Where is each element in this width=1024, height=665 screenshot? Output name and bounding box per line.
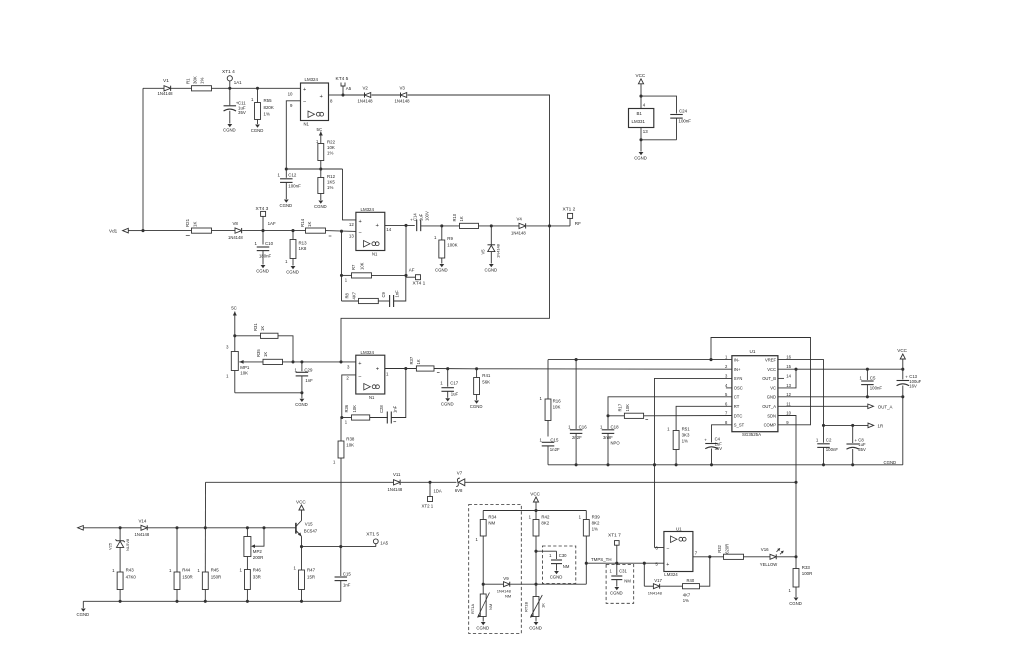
wire R40 up to output — [700, 557, 710, 586]
svg-text:XT1 5: XT1 5 — [366, 531, 379, 537]
svg-text:1%: 1% — [682, 438, 688, 443]
svg-text:12: 12 — [349, 222, 354, 227]
wire C24 bottom to B1 bottom — [641, 139, 677, 141]
svg-text:NM: NM — [488, 604, 493, 610]
node V9 R42 junction — [534, 583, 537, 586]
svg-text:XT2 1: XT2 1 — [422, 504, 434, 509]
svg-text:KT4 5: KT4 5 — [336, 76, 349, 82]
svg-text:CGND: CGND — [435, 267, 448, 272]
node emitter junction — [300, 545, 303, 548]
svg-text:R13: R13 — [299, 241, 308, 246]
wire R8 to C9 — [378, 300, 389, 302]
svg-text:CGND: CGND — [223, 127, 236, 132]
node IN- C16 junction — [575, 358, 578, 361]
wire AF node up to output — [405, 225, 407, 275]
node R22 R12 junction — [319, 167, 322, 170]
power VCC V15 — [296, 499, 306, 510]
node GND C5 junction — [866, 395, 869, 398]
svg-text:C17: C17 — [450, 380, 459, 385]
wire main row to U1 IN+ pin 2 — [473, 368, 732, 370]
resistor R51 — [667, 426, 690, 464]
node rail SYN — [653, 463, 656, 466]
svg-text:1nF: 1nF — [395, 290, 400, 298]
svg-text:CGND: CGND — [529, 625, 542, 630]
tiny mark after R17 — [645, 419, 648, 421]
diode V14 — [135, 518, 150, 536]
node rail R51 — [675, 463, 678, 466]
svg-text:C12: C12 — [288, 173, 297, 178]
ground for R33 — [789, 598, 802, 606]
svg-text:15: 15 — [786, 364, 791, 369]
node R31 join — [291, 360, 294, 363]
svg-text:N1: N1 — [372, 252, 378, 257]
wire pot top to R31 — [235, 335, 261, 337]
net arrow 5C upper — [317, 127, 323, 137]
diode V2 — [358, 86, 374, 104]
node rail C2 — [822, 463, 825, 466]
svg-text:C15: C15 — [550, 437, 559, 442]
svg-text:R12: R12 — [327, 174, 336, 179]
node C15 junction — [339, 545, 342, 548]
zener V7 — [455, 471, 465, 494]
svg-text:NM: NM — [563, 564, 570, 569]
node Vd1 junction — [141, 229, 144, 232]
svg-text:13: 13 — [786, 383, 791, 388]
svg-text:2n2F: 2n2F — [572, 435, 582, 440]
wire DTC row — [608, 415, 732, 417]
tiny mark under C28 — [393, 421, 396, 423]
svg-text:V7: V7 — [457, 471, 463, 476]
svg-text:C2: C2 — [826, 438, 832, 443]
svg-text:35V: 35V — [715, 446, 723, 451]
op-amp N1B LM324 pins 12 13 14 — [349, 207, 392, 257]
power VCC B1 — [636, 73, 646, 109]
svg-text:CGND: CGND — [476, 625, 489, 630]
node rail C16 — [575, 463, 578, 466]
svg-text:R42: R42 — [541, 514, 550, 519]
svg-text:R1: R1 — [186, 78, 191, 84]
svg-text:VCC: VCC — [530, 491, 540, 496]
svg-text:CT: CT — [734, 395, 740, 400]
resistor R42 — [529, 514, 550, 584]
wire R31 down to wiper row — [278, 336, 293, 362]
svg-text:1%: 1% — [264, 112, 270, 117]
svg-text:V14: V14 — [139, 518, 147, 523]
node C29 junction — [300, 360, 303, 363]
wire V9 to R39 — [536, 583, 586, 585]
wire SDN pin10 down — [778, 416, 796, 557]
svg-text:1K8: 1K8 — [299, 246, 307, 251]
capacitor C16 — [568, 360, 587, 465]
thermistor RT1A — [470, 584, 493, 621]
svg-text:V4: V4 — [517, 216, 523, 221]
svg-text:V17: V17 — [654, 578, 662, 583]
svg-text:12: 12 — [786, 392, 791, 397]
svg-text:R40: R40 — [687, 578, 695, 583]
svg-text:RT1B: RT1B — [523, 602, 528, 612]
wire R37 to C17 node — [434, 368, 473, 370]
svg-text:OUT_A: OUT_A — [762, 404, 776, 409]
svg-text:1nF: 1nF — [392, 405, 397, 413]
diode V4 — [511, 216, 526, 235]
resistor R12 — [318, 169, 336, 200]
svg-text:RT1A: RT1A — [470, 604, 475, 614]
svg-text:OUT_A: OUT_A — [878, 404, 893, 409]
svg-text:150R: 150R — [211, 574, 222, 579]
wire CT branch — [608, 397, 732, 416]
wire feedback row 2 down — [341, 275, 343, 301]
svg-text:820K: 820K — [264, 105, 274, 110]
ground for RT1B — [529, 622, 542, 630]
svg-text:V3: V3 — [400, 85, 406, 90]
svg-text:10K: 10K — [360, 262, 365, 270]
svg-text:R21: R21 — [185, 218, 190, 227]
svg-text:R37: R37 — [409, 356, 414, 364]
svg-text:1N4148: 1N4148 — [395, 99, 411, 104]
node B1 top junction — [639, 95, 642, 98]
resistor R34 — [476, 511, 497, 585]
wire C29 node to op-amp3 — [302, 361, 356, 363]
svg-text:10K: 10K — [352, 405, 357, 413]
ground for C10 — [256, 265, 269, 273]
node op-amp3 output junction — [404, 367, 407, 370]
wire R16 C15 branch — [547, 360, 549, 399]
svg-text:1N4148: 1N4148 — [158, 91, 174, 96]
svg-text:CGND: CGND — [77, 612, 90, 617]
wire pin13 node down to feedback row — [341, 231, 343, 275]
node IN- comp loop junction — [709, 358, 712, 361]
svg-text:33R: 33R — [253, 574, 261, 579]
diode V3 — [395, 85, 411, 103]
svg-text:1N4148: 1N4148 — [511, 230, 526, 235]
wire input left vertical (net IN to Vd1 row) — [142, 88, 144, 230]
capacitor C11 — [224, 88, 247, 123]
svg-text:R7: R7 — [351, 264, 356, 270]
svg-text:1K: 1K — [307, 222, 312, 227]
svg-text:R32: R32 — [717, 544, 722, 552]
svg-text:R16: R16 — [553, 399, 562, 404]
test point XT4 1 — [406, 275, 426, 287]
wire op-amp3 output — [385, 368, 417, 370]
zener V25 — [108, 528, 130, 572]
dashed box C31 — [606, 565, 634, 604]
resistor R43 — [112, 567, 136, 601]
svg-text:SYN: SYN — [734, 376, 743, 381]
svg-text:47K0: 47K0 — [126, 574, 137, 579]
svg-text:R35: R35 — [256, 349, 261, 357]
svg-text:TMPS_TH: TMPS_TH — [591, 557, 612, 562]
ground for R41 — [470, 401, 483, 409]
svg-text:CGND: CGND — [441, 402, 454, 407]
diode V1 — [158, 78, 174, 96]
svg-text:CGND: CGND — [610, 590, 623, 595]
wire to V14 — [120, 527, 141, 529]
test point XT4 3 — [256, 206, 276, 230]
svg-text:NPO: NPO — [611, 440, 621, 445]
svg-text:LM324: LM324 — [361, 350, 375, 355]
svg-text:100nF: 100nF — [826, 447, 839, 452]
svg-text:MP1: MP1 — [240, 365, 250, 370]
node LED R33 junction — [794, 555, 797, 558]
wire R7 to AF node — [372, 274, 407, 276]
svg-text:100V: 100V — [424, 211, 429, 221]
svg-text:1uF: 1uF — [418, 213, 423, 221]
resistor R45 — [197, 567, 221, 601]
svg-text:R34: R34 — [488, 514, 497, 519]
resistor R37 — [409, 356, 434, 371]
node feedback row — [340, 274, 343, 277]
svg-text:V11: V11 — [393, 472, 401, 477]
resistor R22 — [316, 137, 336, 169]
svg-text:C24: C24 — [679, 109, 688, 114]
bottom rail — [83, 600, 341, 602]
capacitor C13 — [897, 369, 922, 397]
node C12 junction — [285, 167, 288, 170]
wire R22 junction to op-amp2 noninv input pin 12 — [343, 169, 356, 220]
svg-text:R9: R9 — [447, 236, 453, 241]
svg-text:OUT_B: OUT_B — [762, 376, 776, 381]
node R39 TMPS junction — [585, 562, 588, 565]
svg-text:R22: R22 — [327, 139, 336, 144]
svg-text:R31: R31 — [253, 323, 258, 331]
svg-text:XT4 3: XT4 3 — [256, 206, 269, 212]
svg-text:1N4148: 1N4148 — [648, 591, 663, 596]
svg-text:CGND: CGND — [634, 155, 647, 160]
svg-text:35V: 35V — [858, 447, 866, 452]
node junction at R55 — [256, 87, 259, 90]
wire V8 to XT4 3 node — [243, 230, 264, 232]
LED V16 YELLOW — [760, 547, 784, 567]
svg-text:VCC: VCC — [897, 348, 907, 353]
svg-text:V2: V2 — [363, 86, 369, 91]
wire C28 up to output node — [391, 369, 406, 418]
capacitor C14 series — [409, 211, 430, 231]
wire C13 to rail — [902, 397, 904, 465]
node R44 top — [175, 526, 178, 529]
svg-text:R41: R41 — [482, 373, 491, 378]
wire top row segment — [143, 87, 301, 89]
thermistor RT1B — [523, 584, 545, 621]
terminal VREF — [868, 423, 883, 428]
svg-text:1uF: 1uF — [451, 392, 459, 397]
node AF junction — [404, 267, 414, 277]
power VCC right — [897, 348, 907, 369]
node op-amp4 output junction — [708, 555, 711, 558]
svg-text:+: + — [376, 367, 380, 373]
wire V17 branch down — [644, 563, 653, 586]
feedback row op-amp3 — [340, 416, 351, 425]
svg-text:4K7: 4K7 — [352, 291, 357, 299]
svg-text:1N4148: 1N4148 — [135, 532, 150, 537]
wire shutdown corner down — [204, 482, 206, 572]
capacitor C28 series — [379, 405, 397, 424]
wire COMP loop — [711, 338, 811, 425]
svg-text:14: 14 — [386, 227, 391, 232]
svg-text:VCC: VCC — [636, 73, 646, 78]
ground for R13 — [286, 266, 299, 274]
wire op-amp1 inverting input — [286, 101, 300, 169]
transistor V15 BC547 — [296, 510, 318, 547]
node V5 junction — [490, 224, 493, 227]
wire pot bottom row — [235, 392, 302, 394]
svg-text:CGND: CGND — [286, 269, 299, 274]
wire C14 to R10 — [421, 225, 460, 227]
wire U1 pin1 IN- row — [548, 359, 732, 361]
potentiometer MP1 — [226, 345, 250, 393]
svg-text:R17: R17 — [618, 403, 623, 411]
resistor R14 — [300, 218, 326, 233]
ground for C30 — [550, 571, 563, 579]
wire VCC row right — [778, 368, 903, 370]
svg-text:OSC: OSC — [734, 386, 743, 391]
resistor R46 — [239, 567, 261, 601]
svg-text:S_ST: S_ST — [734, 423, 745, 428]
node rail R44 — [175, 600, 178, 603]
ground for C31 — [610, 587, 623, 595]
svg-text:Vd1: Vd1 — [109, 229, 118, 234]
ground for C29 — [295, 393, 308, 407]
svg-text:1%: 1% — [200, 78, 205, 84]
svg-text:620R: 620R — [724, 544, 729, 554]
ground rail label — [884, 460, 897, 465]
wire V7 to pin10 vertical — [465, 481, 796, 483]
wire V2 to V3 — [372, 94, 401, 96]
svg-text:56K: 56K — [482, 380, 490, 385]
svg-text:10K: 10K — [327, 145, 335, 150]
node V25 junction — [119, 526, 122, 529]
svg-text:C16: C16 — [579, 424, 588, 429]
svg-text:V16: V16 — [761, 547, 769, 552]
ground for RT1A — [476, 622, 489, 630]
svg-text:10K: 10K — [625, 404, 630, 412]
svg-text:COMP: COMP — [764, 423, 777, 428]
resistor R36 — [344, 404, 370, 420]
U1 pin 4 stub — [726, 387, 732, 389]
svg-text:180nF: 180nF — [259, 254, 272, 259]
node shutdown pin10 junction — [794, 481, 797, 484]
svg-text:R8: R8 — [345, 292, 350, 298]
resistor R40 — [683, 578, 700, 603]
resistor R41 — [474, 369, 491, 400]
op-amp N1C LM324 pins 3 2 1 — [346, 350, 389, 400]
svg-text:16V: 16V — [909, 384, 917, 389]
svg-text:CGND: CGND — [251, 128, 264, 133]
svg-text:5C: 5C — [231, 305, 237, 310]
svg-text:V1: V1 — [163, 78, 169, 84]
svg-text:1K: 1K — [540, 603, 545, 608]
resistor R1 — [186, 76, 212, 91]
svg-text:R55: R55 — [264, 98, 273, 103]
svg-text:C9: C9 — [381, 291, 386, 297]
capacitor C18 — [600, 416, 620, 465]
wire C9 up to AF node — [394, 275, 406, 301]
svg-text:1AF: 1AF — [268, 221, 276, 226]
wire RF node down-left to op-amp3 input — [341, 226, 550, 362]
diode V8 — [228, 221, 243, 240]
svg-text:10: 10 — [288, 91, 293, 96]
dashed box thermistor RT1A — [469, 505, 522, 634]
svg-text:AF: AF — [409, 267, 415, 272]
node XT2 1 junction — [428, 481, 431, 484]
capacitor C31 — [609, 563, 631, 586]
svg-text:10K: 10K — [346, 442, 354, 447]
svg-text:IN+: IN+ — [734, 367, 741, 372]
svg-text:RT: RT — [734, 404, 740, 409]
svg-text:+: + — [855, 438, 858, 443]
svg-text:C29: C29 — [304, 367, 313, 372]
svg-text:V9: V9 — [503, 576, 509, 581]
node C29 bottom junction — [300, 391, 303, 394]
svg-text:R33: R33 — [802, 565, 811, 570]
svg-text:NM: NM — [505, 594, 511, 599]
wire R35 to C29 node — [283, 361, 302, 363]
resistor R31 — [253, 323, 278, 339]
wire V4 to RF node — [527, 225, 571, 227]
svg-text:+: + — [905, 374, 908, 379]
wire SYN ground vertical — [655, 378, 732, 547]
node junction at C11 — [228, 87, 231, 90]
svg-text:6V8: 6V8 — [455, 488, 463, 493]
capacitor C15 — [335, 547, 352, 602]
node VCC C13 junction — [901, 368, 904, 371]
svg-text:1%: 1% — [683, 598, 689, 603]
wire VREF branch — [778, 360, 824, 426]
svg-text:+: + — [358, 361, 361, 367]
svg-text:10K: 10K — [240, 371, 248, 376]
svg-text:SDN: SDN — [767, 413, 776, 418]
wire TMPS_TH row — [586, 557, 664, 563]
ground bottom rail — [77, 601, 90, 617]
svg-text:5C: 5C — [317, 127, 323, 132]
svg-text:CGND: CGND — [485, 267, 498, 272]
wire to diode V2 — [343, 94, 365, 96]
node VCC thermal junction — [534, 509, 537, 512]
wire V14 to base — [148, 527, 296, 529]
capacitor C8 — [846, 425, 866, 464]
svg-text:4K7: 4K7 — [683, 592, 691, 597]
svg-text:30K: 30K — [193, 76, 198, 84]
wire op-amp1 output — [329, 94, 344, 96]
wire op-amp2 output — [385, 224, 415, 226]
svg-text:R51: R51 — [682, 426, 691, 431]
wire shutdown row left — [206, 481, 394, 483]
wire emitter row — [302, 546, 376, 548]
svg-text:MP2: MP2 — [253, 549, 263, 554]
svg-text:R14: R14 — [300, 218, 305, 227]
svg-text:N1: N1 — [369, 395, 375, 400]
wire Vd1 row to R21 — [143, 230, 192, 232]
test point XT1 7 — [608, 533, 621, 564]
svg-text:CGND: CGND — [470, 404, 483, 409]
svg-text:1DA: 1DA — [434, 488, 442, 493]
svg-text:R45: R45 — [211, 567, 220, 572]
svg-text:1K5: 1K5 — [327, 179, 335, 184]
net arrow 5C pot — [231, 305, 237, 317]
resistor R9 — [434, 226, 458, 264]
svg-text:3K3: 3K3 — [682, 432, 690, 437]
diode V5 to ground — [481, 226, 501, 264]
resistor R33 — [788, 557, 812, 597]
ground for C12 — [280, 200, 293, 208]
svg-text:11: 11 — [786, 401, 791, 406]
test point XT2 1 — [422, 482, 442, 508]
wire S_ST branch — [712, 425, 732, 443]
ground for B1 — [634, 152, 647, 160]
svg-text:CGND: CGND — [884, 460, 897, 465]
svg-text:R10: R10 — [452, 213, 457, 221]
svg-text:U1: U1 — [676, 527, 682, 532]
tiny mark after R14 — [329, 235, 332, 237]
